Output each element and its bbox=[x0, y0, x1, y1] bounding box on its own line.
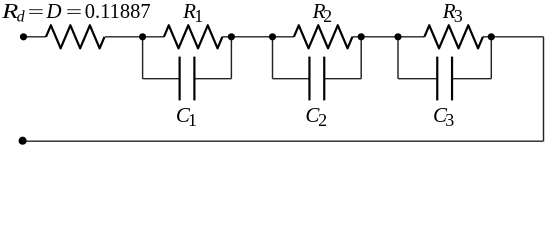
svg-text:C3: C3 bbox=[433, 103, 454, 130]
svg-text:R3: R3 bbox=[442, 0, 463, 26]
svg-text:C1: C1 bbox=[176, 103, 197, 130]
svg-text:R2: R2 bbox=[312, 0, 333, 26]
svg-text:R1: R1 bbox=[182, 0, 203, 26]
svg-text:C2: C2 bbox=[305, 103, 327, 130]
svg-text:RdD0.11887: RdD0.11887 bbox=[1, 0, 151, 26]
